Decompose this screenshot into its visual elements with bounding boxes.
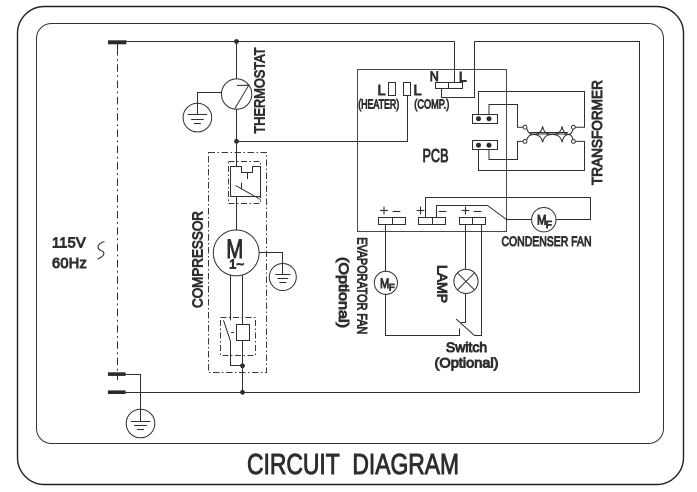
connector CN4 (condenser fan) — [419, 218, 446, 225]
wire CN5 + to lamp — [465, 224, 467, 269]
wire bottom rail — [126, 392, 640, 394]
wire top rail left — [126, 41, 454, 43]
terminal T3 (bottom blade b) — [108, 390, 126, 394]
svg-text:60Hz: 60Hz — [52, 256, 87, 272]
label + (CN3) — [380, 210, 388, 212]
svg-text:CIRCUIT DIAGRAM: CIRCUIT DIAGRAM — [247, 449, 459, 481]
svg-text:PCB: PCB — [423, 146, 449, 166]
wire CN5 - to switch — [474, 224, 481, 336]
overload protector OL1 outer box — [229, 162, 261, 204]
svg-text:LAMP: LAMP — [433, 265, 449, 303]
svg-text:M: M — [380, 275, 389, 291]
supply squiggle mark — [98, 242, 105, 260]
wire thermostat to ground G1 — [198, 93, 222, 115]
svg-text:1~: 1~ — [229, 257, 244, 272]
svg-text:(Optional): (Optional) — [336, 257, 352, 328]
PCB board outline — [358, 70, 507, 232]
svg-text:(HEATER): (HEATER) — [358, 97, 399, 112]
wire T2 to ground G3 — [126, 375, 141, 422]
svg-text:(COMP.): (COMP.) — [414, 97, 449, 112]
wire lamp to switch contact — [461, 294, 466, 323]
node junction relay outputs — [240, 363, 245, 368]
svg-text:N: N — [430, 68, 439, 84]
label - (CN5) — [474, 211, 482, 213]
wire junction to overload — [236, 142, 238, 167]
pin L HEATER — [389, 83, 396, 96]
border frame (inner) — [37, 24, 664, 444]
node junction thermostat / PCB wire — [234, 139, 239, 144]
connector CN2 (to transformer secondary) — [473, 141, 498, 150]
wire overload to motor — [236, 197, 238, 231]
svg-text:TRANSFORMER: TRANSFORMER — [589, 80, 606, 185]
connector CN3 (evaporator fan) — [379, 218, 406, 225]
wire CN2 pin2 to transformer — [489, 141, 523, 159]
ground G2 — [269, 264, 296, 291]
wire motor to relay switch — [230, 275, 232, 320]
wire CN1 pin2 to transformer — [489, 105, 523, 128]
transformer TR1 — [523, 125, 575, 143]
wire top rail to N pin — [454, 42, 456, 83]
relay link (dashed) — [231, 332, 237, 334]
terminal T2 (bottom blade a) — [108, 372, 126, 376]
connector N/L block — [436, 83, 463, 89]
label + (CN4) — [417, 210, 425, 212]
svg-text:(Optional): (Optional) — [435, 355, 499, 371]
thermostat TH1 — [221, 79, 251, 109]
wire relay coil to bottom rail — [242, 340, 244, 393]
wire CN1 pin1 to transformer — [479, 92, 585, 128]
wire CN3 + to evaporator fan — [385, 224, 387, 271]
wire motor to ground G2 — [259, 253, 282, 275]
pin L COMP — [404, 83, 411, 96]
wire CN4 - to condenser fan — [437, 206, 532, 220]
svg-text:Switch: Switch — [446, 339, 487, 355]
wire top rail right + right drop — [475, 42, 640, 393]
svg-text:EVAPORATOR FAN: EVAPORATOR FAN — [354, 237, 370, 334]
svg-text:THERMOSTAT: THERMOSTAT — [253, 48, 269, 134]
wire CN2 pin1 to transformer — [479, 141, 585, 170]
label - (CN3) — [393, 211, 401, 213]
motor M3 evaporator fan — [374, 271, 397, 294]
connector CN1 (to transformer primary) — [473, 115, 498, 124]
svg-text:F: F — [389, 283, 395, 294]
terminal T1 (top supply blade) — [108, 40, 126, 48]
wire evaporator fan to switch — [386, 294, 460, 335]
wire thermostat bottom — [236, 109, 238, 141]
svg-text:L: L — [459, 69, 467, 85]
motor M2 condenser fan — [532, 208, 556, 232]
relay coil — [237, 325, 250, 341]
compressor enclosure box — [209, 153, 267, 373]
wire supply dash-dot line — [117, 48, 119, 380]
relay switch blade — [224, 320, 243, 365]
node junction bottom rail — [240, 390, 245, 395]
svg-text:CONDENSER FAN: CONDENSER FAN — [502, 234, 592, 250]
wire motor to relay coil — [242, 275, 244, 325]
switch SW1 blade — [456, 319, 474, 335]
overload protector OL1 body — [231, 167, 261, 200]
svg-text:F: F — [546, 220, 552, 231]
lamp LP1 — [454, 269, 478, 293]
svg-text:115V: 115V — [52, 236, 86, 252]
wire CN4 + to condenser fan loop — [426, 198, 591, 220]
node junction top rail / thermostat — [234, 39, 239, 44]
wire L pin loop to top rail — [442, 42, 475, 98]
wire thermostat junction to PCB L(COMP) pin — [237, 96, 408, 142]
motor M1 (compressor motor) — [213, 230, 259, 276]
ground G3 — [126, 409, 155, 438]
wire thermostat top — [236, 42, 238, 79]
connector CN5 (lamp) — [460, 218, 486, 225]
label + (CN5) — [462, 210, 470, 212]
svg-text:COMPRESSOR: COMPRESSOR — [190, 211, 207, 308]
relay RY1 box — [221, 318, 256, 356]
label - (CN4) — [439, 211, 447, 213]
ground G1 — [183, 103, 212, 132]
